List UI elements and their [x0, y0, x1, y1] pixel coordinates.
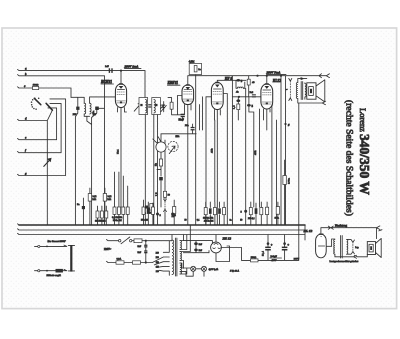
- tube V1 ECH11: [115, 84, 126, 108]
- svg-text:5 Ty 44 A: 5 Ty 44 A: [230, 270, 240, 273]
- pot dashed gang section: [168, 141, 178, 151]
- svg-text:240: 240: [156, 252, 159, 254]
- svg-text:MΩ: MΩ: [92, 199, 96, 201]
- trimmer cap right of T3: [162, 105, 165, 106]
- rear view I-bar: [70, 245, 72, 272]
- svg-text:2M 5n 1M: 2M 5n 1M: [204, 221, 213, 223]
- power transformer secondary windings: [180, 241, 182, 250]
- capacitor 5n at V1 left: [96, 107, 99, 110]
- wire: mains line 2 with fuses: [116, 261, 124, 264]
- capacitor 20nF on grid line: [191, 127, 195, 128]
- capacitor cluster E: [145, 206, 148, 209]
- svg-text:25k 0,1: 25k 0,1: [248, 218, 255, 220]
- T1 core square left: [76, 107, 79, 110]
- capacitor blob on V3 top line: [236, 79, 240, 82]
- svg-text:Lautsprecheranschluß geändert: Lautsprecheranschluß geändert: [330, 260, 359, 263]
- svg-text:0,1: 0,1: [197, 220, 200, 222]
- resistor cluster F: [204, 208, 207, 215]
- dial lamp 2: [202, 266, 207, 271]
- svg-text:18,4: 18,4: [262, 250, 264, 256]
- switch arm 2 (bold): [46, 103, 52, 110]
- plug connector on 165: [164, 202, 166, 210]
- resistor cluster A: [88, 194, 91, 202]
- tube V3 EF9: [211, 83, 223, 110]
- capacitor 7n5: [252, 94, 256, 95]
- svg-text:100n: 100n: [288, 177, 291, 184]
- svg-text:2×8μF: 2×8μF: [271, 255, 278, 258]
- junction caps with labels: [156, 213, 159, 216]
- addendum transformer secondary: [347, 239, 348, 254]
- output transformer secondary: [305, 84, 306, 97]
- svg-text:50k 1M: 50k 1M: [141, 220, 148, 222]
- resistor cluster G: [244, 210, 247, 213]
- svg-text:+: +: [287, 243, 289, 247]
- svg-text:EL12: EL12: [272, 79, 281, 83]
- svg-text:Bildseite wegkl.: Bildseite wegkl.: [47, 274, 62, 277]
- svg-text:MΩ: MΩ: [107, 199, 111, 201]
- resistor cluster B: [96, 211, 99, 218]
- coil squiggle: [237, 87, 243, 88]
- power transformer primary: [172, 240, 174, 275]
- svg-text:ECH11: ECH11: [100, 80, 112, 84]
- 5nF caps on mains: [145, 240, 147, 242]
- loudspeaker (addendum): [367, 242, 375, 255]
- speaker plug dashed link: [289, 81, 291, 98]
- svg-text:+: +: [271, 243, 273, 247]
- svg-text:1nF: 1nF: [105, 65, 109, 68]
- loudspeaker (top): [307, 83, 316, 99]
- cap blob below: [236, 99, 240, 102]
- switch arm 1 (bold): [34, 98, 41, 104]
- svg-text:EF 9: EF 9: [224, 77, 233, 81]
- rectifier tube EZ12: [211, 242, 222, 253]
- capacitor between T3 units: [148, 104, 151, 105]
- svg-text:50nF: 50nF: [179, 119, 185, 122]
- rear view terminal 2 with resistor: [38, 270, 40, 272]
- addendum plug dashed: [352, 242, 354, 252]
- cap blob 5: [247, 104, 251, 107]
- arrow on antenna wire: [44, 160, 50, 166]
- addendum output transformer primary: [334, 239, 335, 254]
- svg-text:45k: 45k: [254, 150, 257, 155]
- wire: chassis bus 1: [19, 224, 305, 226]
- svg-text:~: ~: [286, 88, 288, 92]
- svg-text:150: 150: [156, 262, 159, 264]
- resistor 0,1 right of T3: [170, 102, 173, 109]
- svg-text:50: 50: [240, 220, 242, 222]
- svg-text:1n: 1n: [230, 220, 232, 222]
- wire: B+ rail 250V: [256, 75, 258, 77]
- resistor on DC line: [251, 259, 259, 262]
- small RC pair left of EZ12: [194, 242, 198, 245]
- overlay strokes (component internals): [192, 237, 325, 271]
- svg-text:800Ω: 800Ω: [33, 84, 39, 87]
- svg-text:360V: 360V: [294, 258, 300, 261]
- resistor below pot: [159, 159, 162, 166]
- potentiometer (volume): [156, 142, 166, 152]
- mains switch: [119, 240, 121, 242]
- resistor 800 on stub c: [33, 86, 39, 89]
- svg-text:250V 1mA: 250V 1mA: [124, 65, 139, 69]
- svg-text:7k4: 7k4: [116, 149, 119, 154]
- svg-text:0,1 1M 50k: 0,1 1M 50k: [112, 217, 123, 219]
- tube V2 EBF11: [182, 85, 194, 105]
- svg-text:Nur Bauart 350W: Nur Bauart 350W: [47, 240, 67, 243]
- output transformer primary: [296, 83, 298, 99]
- svg-text:Nachtrag: Nachtrag: [335, 224, 347, 228]
- wire: V4 top to rail: [266, 75, 268, 77]
- IF transformer T1 coil a: [84, 103, 86, 114]
- capacitor 5n cluster A: [82, 206, 85, 209]
- svg-text:220: 220: [156, 257, 159, 259]
- resistor 1,2k: [237, 104, 240, 110]
- svg-text:220V~: 220V~: [104, 248, 112, 251]
- electrolytic capacitor 1: [265, 247, 271, 249]
- wire: V1 top cap to rail a: [120, 70, 122, 72]
- rotary band switch contact ring (dots): [31, 104, 33, 106]
- IF transformer T3 unit 2: [152, 98, 161, 115]
- wire: screen line y96.8: [238, 96, 240, 98]
- svg-text:4,5M: 4,5M: [189, 61, 195, 64]
- dial lamp 1: [191, 266, 196, 271]
- svg-text:50: 50: [185, 220, 187, 222]
- svg-text:EBF11: EBF11: [167, 81, 179, 85]
- svg-text:1,2: 1,2: [234, 105, 236, 109]
- resistor 40k: [247, 79, 250, 85]
- RC network box 4M/100n: [189, 64, 201, 75]
- svg-text:EL 12: EL 12: [303, 229, 313, 233]
- rear view terminal 1: [38, 245, 40, 247]
- svg-text:6,3V 0,4A: 6,3V 0,4A: [209, 268, 219, 271]
- resistor cluster C: [113, 207, 116, 214]
- fuse box: [134, 239, 142, 243]
- tube V4 EL12: [261, 84, 273, 109]
- svg-text:125: 125: [156, 267, 159, 269]
- capacitor on rail a: [109, 68, 110, 73]
- svg-text:5n: 5n: [92, 110, 95, 113]
- electrolytic capacitor 2: [282, 247, 288, 249]
- IF transformer T3 unit 1: [139, 98, 148, 115]
- svg-text:0,8A: 0,8A: [117, 257, 122, 260]
- capacitor 50nF below V2: [181, 114, 185, 115]
- svg-text:7,5: 7,5: [156, 192, 158, 196]
- svg-text:110: 110: [156, 271, 159, 273]
- svg-text:30 5n 2M: 30 5n 2M: [113, 220, 122, 222]
- wire: vertical 285.5 from rail with junction g: [284, 123, 286, 125]
- svg-text:(rechte Seite des Schaltbildes: (rechte Seite des Schaltbildes): [344, 100, 355, 216]
- svg-text:1M 0,1 50k: 1M 0,1 50k: [203, 218, 214, 220]
- IF transformer T1 coil b: [90, 103, 92, 114]
- svg-text:250V 7mA: 250V 7mA: [266, 71, 281, 75]
- resistor cluster D: [142, 207, 145, 214]
- dark component below pot: [159, 177, 163, 180]
- svg-text:450V: 450V: [271, 259, 277, 262]
- svg-text:500Ω: 500Ω: [251, 256, 257, 259]
- T1 core square right: [95, 107, 98, 110]
- svg-text:EZ 12: EZ 12: [222, 236, 232, 240]
- svg-text:45k: 45k: [211, 148, 214, 153]
- svg-text:5k: 5k: [155, 163, 158, 166]
- svg-text:1M 50k 2M: 1M 50k 2M: [95, 221, 106, 223]
- capacitor 100n mid right: [283, 176, 286, 185]
- wire: master wiring: [18, 69, 383, 277]
